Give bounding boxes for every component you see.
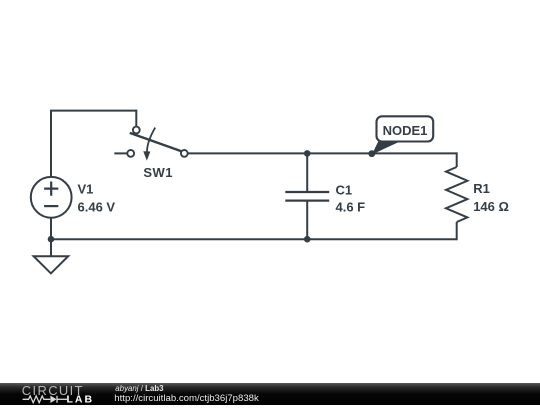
switch open terminal xyxy=(127,150,134,157)
switch actuator arc xyxy=(147,128,155,152)
wire stub to open terminal xyxy=(114,152,127,154)
wire C1 bottom xyxy=(306,201,308,240)
switch common terminal xyxy=(181,150,188,157)
junction dot C1 top xyxy=(304,150,311,157)
svg-text:SW1: SW1 xyxy=(143,165,173,180)
svg-text:R1: R1 xyxy=(473,181,490,196)
switch throw terminal xyxy=(133,127,140,134)
junction dot C1 bottom xyxy=(304,236,311,243)
wire V1 bottom xyxy=(50,219,52,241)
svg-text:146 Ω: 146 Ω xyxy=(473,199,509,214)
node NODE1 flag box xyxy=(377,116,434,141)
switch SW1 xyxy=(127,127,187,161)
wire bottom horizontal xyxy=(50,238,457,240)
junction dot NODE1 xyxy=(368,150,375,157)
wire C1 top xyxy=(306,153,308,192)
ground xyxy=(34,256,69,273)
svg-text:6.46 V: 6.46 V xyxy=(78,200,116,215)
wire top horizontal (switch common to R1 branch) xyxy=(188,152,457,154)
footer logo diode triangle xyxy=(50,396,56,403)
svg-text:4.6 F: 4.6 F xyxy=(336,199,366,214)
voltage source V1 xyxy=(31,177,72,218)
node NODE1 flag pointer xyxy=(372,141,401,155)
switch blade xyxy=(130,133,182,151)
wire switch throw drop xyxy=(135,110,137,127)
footer bar xyxy=(0,383,540,405)
svg-text:LAB: LAB xyxy=(67,394,95,406)
wire top-left horizontal xyxy=(50,110,136,112)
svg-text:V1: V1 xyxy=(78,182,94,197)
svg-text:http://circuitlab.com/ctjb36j7: http://circuitlab.com/ctjb36j7p838k xyxy=(114,393,259,404)
junction dot V1/bottom xyxy=(48,236,55,243)
resistor R1 xyxy=(446,167,467,222)
footer logo wire-resistor-diode xyxy=(23,396,67,403)
wire left vertical (V1 top to corner) xyxy=(50,111,52,177)
svg-text:abyanj / Lab3: abyanj / Lab3 xyxy=(115,384,164,393)
switch arrow head xyxy=(143,151,150,160)
svg-text:C1: C1 xyxy=(336,183,353,198)
wire ground stem xyxy=(50,239,52,256)
capacitor C1 xyxy=(285,192,329,201)
wire R1 top xyxy=(456,152,458,167)
svg-text:NODE1: NODE1 xyxy=(383,123,428,138)
wire R1 bottom xyxy=(456,222,458,240)
